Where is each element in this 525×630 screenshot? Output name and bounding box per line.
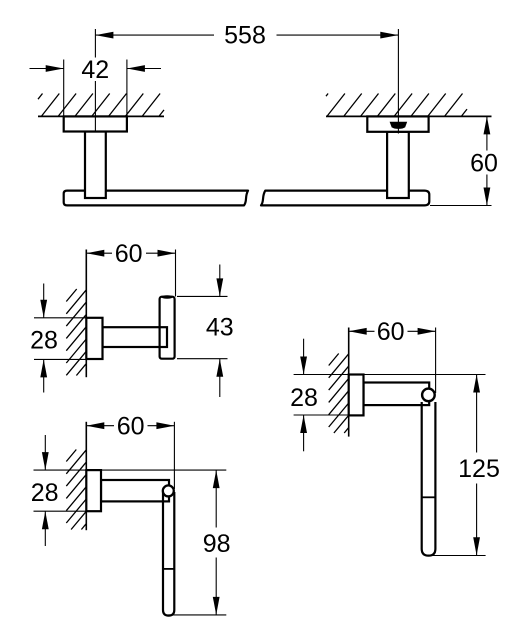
dim 28 (spare holder) top arrow <box>303 339 305 375</box>
dim 98 up arrow <box>213 470 220 488</box>
dim 60 (hook) right extension line <box>175 250 177 297</box>
dim 42 left arrow <box>30 68 64 70</box>
dim 60 (hook) line <box>86 252 112 254</box>
dim 28 (paper holder) bottom extension line <box>34 510 87 512</box>
dim 60 (spare holder) line <box>349 330 375 332</box>
paper holder pivot circle <box>163 485 174 496</box>
left bracket plate <box>64 116 127 131</box>
dim 60 (paper holder) right extension line <box>173 422 175 489</box>
towel bar left segment with break <box>64 191 248 206</box>
dim 60 (hook) right arrow <box>158 250 176 257</box>
wall hatch (paper holder) <box>66 450 86 530</box>
spare holder rod tip tick <box>422 496 436 498</box>
wall hatch (hook) <box>66 289 86 376</box>
hook bar dark top edge <box>161 295 173 298</box>
svg-text:42: 42 <box>81 56 109 84</box>
svg-text:558: 558 <box>224 22 266 50</box>
dim 98 line <box>215 470 217 527</box>
spare holder wall plate <box>349 375 364 416</box>
spare holder rod <box>422 402 436 556</box>
dim 125 bottom extension line <box>430 555 486 557</box>
svg-text:28: 28 <box>30 327 58 355</box>
right bracket post <box>387 132 409 198</box>
dim 28 (hook) bottom arrow <box>43 359 45 392</box>
paper holder wall plate <box>86 470 101 511</box>
centre line of right bracket <box>397 29 399 134</box>
dim 43 (hook) extension lines <box>177 295 228 297</box>
dim 558 line <box>95 34 214 36</box>
wall surface line right (towel rail), extends as top extension of dim 60 <box>326 115 492 117</box>
paper holder rod tip tick <box>163 568 174 570</box>
svg-text:43: 43 <box>206 314 234 342</box>
dim 28 (hook) extension lines <box>34 317 86 319</box>
dim 60 (towel rail) line <box>486 116 488 150</box>
wall surface line (paper holder) <box>85 422 87 530</box>
dim 60 (spare holder) right extension line <box>435 328 437 394</box>
svg-text:60: 60 <box>377 318 405 346</box>
dim 42 right arrow <box>127 68 161 70</box>
svg-text:28: 28 <box>31 479 59 507</box>
svg-text:125: 125 <box>458 455 500 483</box>
dim 125 up arrow <box>473 375 480 393</box>
svg-text:60: 60 <box>117 413 145 441</box>
towel bar right segment with rounded end <box>261 191 429 206</box>
dim 558 right arrow <box>380 32 398 39</box>
dim 60 (paper holder) line <box>86 425 114 427</box>
dim 98 down arrow <box>213 597 220 615</box>
wall hatch (spare holder) <box>329 354 349 434</box>
dim 125 down arrow <box>473 537 480 555</box>
dim 43 (hook) bottom arrow <box>219 359 221 397</box>
dim 60 (towel rail) down arrow <box>484 188 491 206</box>
dim 28 (spare holder) bottom extension line <box>294 414 349 416</box>
dim 125 line <box>476 375 478 453</box>
dim 60 (towel rail) up arrow <box>484 116 491 134</box>
svg-text:28: 28 <box>290 384 318 412</box>
screw head detail in right bracket <box>390 122 408 129</box>
spare holder arm <box>364 383 430 406</box>
wall surface line (hook) <box>85 250 87 378</box>
right bracket plate <box>367 116 428 131</box>
paper holder arm <box>101 480 169 501</box>
hook wall plate <box>86 318 102 359</box>
dim 28 (paper holder) bottom arrow <box>44 511 46 546</box>
dim 42 extension lines <box>63 60 65 117</box>
hook vertical bar <box>160 297 175 359</box>
svg-text:60: 60 <box>470 149 498 177</box>
wall surface line (spare holder) <box>348 328 350 437</box>
dim 43 (hook) top arrow <box>219 265 221 297</box>
dim 125 top extension line (long) <box>294 374 486 376</box>
dim 60 (paper holder) right arrow <box>156 422 174 429</box>
dim 60 (spare holder) right arrow <box>418 328 436 335</box>
paper holder rod <box>163 492 174 616</box>
dim 60 (towel rail) extension line at bar bottom <box>430 205 492 207</box>
svg-text:60: 60 <box>115 240 143 268</box>
dim 98 top extension line (long) <box>34 469 227 471</box>
wall hatch left (towel rail) <box>38 94 164 117</box>
dim 98 bottom extension line <box>168 614 226 616</box>
wall surface line left (towel rail) <box>38 115 164 117</box>
spare holder pivot circle <box>422 389 435 402</box>
dim 28 (spare holder) bottom arrow <box>303 415 305 451</box>
centre line of left bracket <box>94 29 96 58</box>
dim 60 (paper holder) left arrow <box>86 422 104 429</box>
dim 558 left arrow <box>95 32 113 39</box>
dim 60 (hook) left arrow <box>86 250 104 257</box>
hook arm <box>103 327 168 347</box>
svg-text:98: 98 <box>203 530 231 558</box>
dim 28 (paper holder) top arrow <box>44 435 46 470</box>
left bracket post <box>85 132 106 199</box>
wall hatch right (towel rail) <box>326 94 467 117</box>
dim 60 (spare holder) left arrow <box>349 328 367 335</box>
dim 28 (hook) top arrow <box>43 284 45 318</box>
